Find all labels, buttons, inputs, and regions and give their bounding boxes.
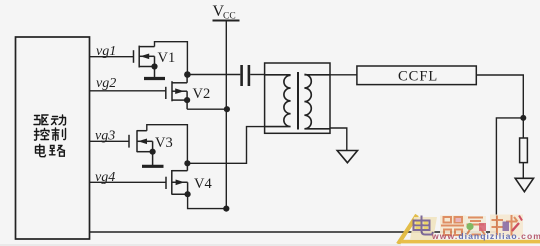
svg-text:CCFL: CCFL: [398, 69, 438, 85]
wire capacitor to transformer: [250, 74, 264, 76]
power terminal Vcc bar: [213, 20, 240, 22]
svg-text:V4: V4: [194, 176, 212, 192]
watermark text 料 (of 电器资料): [490, 215, 523, 237]
transformer T1 primary winding: [265, 75, 291, 127]
svg-text:V1: V1: [158, 50, 176, 66]
transformer T1 core: [297, 72, 299, 130]
junction dot V4 source-body: [185, 191, 191, 197]
transistor V4: [166, 163, 188, 194]
ground symbol (resistor): [515, 178, 533, 191]
label vg3: [95, 129, 115, 144]
wire V3 drain to node C: [147, 125, 188, 164]
transformer T1 secondary winding: [304, 74, 330, 128]
wire node B to resistor: [522, 118, 524, 138]
wire CCFL to sense node: [476, 75, 523, 118]
label 制 (box text row 2 char 2): [52, 128, 66, 141]
junction dot V2 source-body: [184, 97, 190, 103]
transistor V3: [129, 130, 153, 165]
ground bar of V3: [142, 165, 164, 168]
wire resistor to ground: [522, 163, 524, 179]
junction dot V3 source-body: [150, 149, 156, 155]
label vg1: [96, 44, 116, 59]
svg-text:vg2: vg2: [96, 76, 116, 91]
node A junction dot (V1/V2): [184, 71, 191, 78]
label 控 (box text row 2 char 1): [35, 129, 50, 141]
label Vcc: [213, 3, 236, 22]
watermark underline: [401, 240, 540, 244]
arrow of V2 (points right): [175, 88, 184, 94]
wire V1 drain to node A: [155, 42, 188, 75]
transistor V2: [166, 75, 187, 110]
node B junction dot (sense): [520, 115, 526, 121]
transistor V1: [134, 46, 155, 78]
label 电 (box text row 3 char 1): [36, 145, 46, 157]
capacitor C1: [242, 65, 249, 86]
control box U1 (drive control circuit): [16, 37, 90, 239]
junction dot rail mid: [224, 106, 230, 112]
watermark text 器 (of 电器资料): [440, 216, 466, 237]
arrow of V4 (points right): [176, 180, 185, 186]
wire vg2: [90, 90, 166, 92]
wire node A to capacitor: [187, 74, 240, 76]
svg-text:V3: V3: [155, 135, 173, 151]
watermark swoosh: [398, 215, 417, 244]
arrow of V3 (points left): [138, 139, 147, 145]
wire vg1: [90, 56, 134, 58]
junction dot V1 source-body: [151, 63, 157, 69]
label vg4: [95, 170, 115, 185]
resistor R1: [520, 138, 528, 163]
wire transformer secondary low to ground: [330, 128, 347, 151]
transformer T1 box: [265, 63, 330, 133]
node C junction dot (V3/V4): [184, 160, 190, 166]
wire vg4: [90, 181, 167, 183]
wire V4 source to rail bottom: [188, 194, 227, 208]
wire transformer to CCFL: [330, 74, 357, 76]
wire feedback (node B to control box): [90, 118, 524, 232]
label vg2: [96, 76, 116, 91]
label 路 (box text row 3 char 2): [50, 146, 65, 157]
watermark text 资 (of 电器资料): [465, 216, 486, 237]
wire V2 source to Vcc rail: [187, 108, 227, 110]
label 动 (box text row 1 char 2): [52, 115, 66, 125]
arrow of V1 (points left): [140, 54, 149, 60]
label 驱 (box text row 1 char 1): [34, 115, 48, 125]
lamp CCFL box: [357, 66, 476, 85]
svg-text:www.dianqiziliao.com: www.dianqiziliao.com: [431, 231, 540, 241]
wire vg3: [90, 140, 130, 142]
ground symbol (transformer): [337, 151, 357, 163]
junction dot rail bottom: [223, 206, 229, 212]
wire node C to transformer primary low: [187, 127, 264, 164]
ground bar of V1: [144, 77, 165, 80]
wire Vcc rail: [225, 21, 227, 209]
watermark text 电 (of 电器资料): [410, 216, 437, 241]
bottom scan edge: [0, 244, 401, 246]
svg-text:V2: V2: [193, 86, 211, 102]
